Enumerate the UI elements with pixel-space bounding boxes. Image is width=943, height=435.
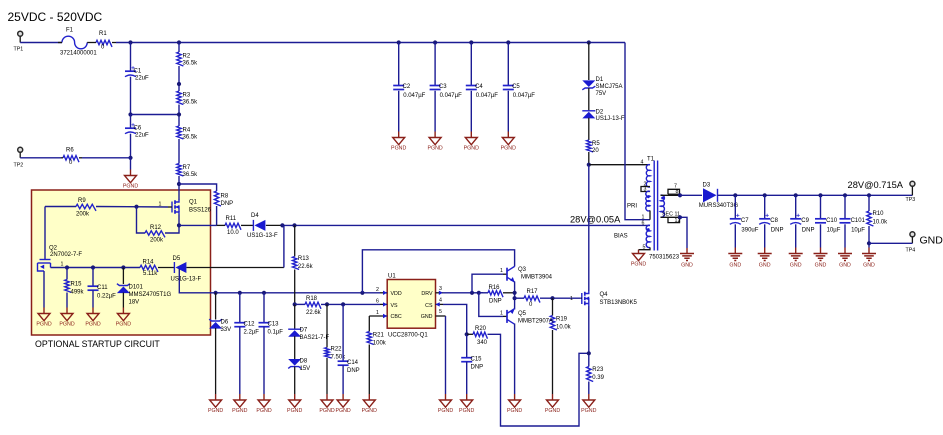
svg-text:C101: C101 (851, 218, 866, 224)
svg-text:28V@0.715A: 28V@0.715A (848, 180, 904, 190)
wire DRV line (443, 292, 483, 294)
transistor Q2 2N7002-7-F (40, 259, 51, 261)
svg-text:GND: GND (729, 263, 741, 269)
svg-text:Q2: Q2 (49, 246, 58, 252)
svg-text:DNP: DNP (489, 299, 502, 305)
svg-text:MURS340T3G: MURS340T3G (699, 203, 739, 209)
svg-text:BIAS: BIAS (614, 234, 628, 240)
wire VIN down right (625, 43, 650, 220)
wire branch down to D5 line (282, 224, 284, 226)
ground PGND R23 (583, 400, 595, 407)
ground PGND Q5 (509, 400, 521, 407)
svg-text:28V@0.05A: 28V@0.05A (570, 214, 621, 224)
transistor Q1 BSS126 (171, 202, 173, 213)
resistor R8 (214, 191, 221, 206)
svg-text:C4: C4 (475, 84, 483, 90)
ground PGND C11 (87, 314, 99, 321)
wire CS line (443, 304, 467, 334)
ground GND C8 (758, 254, 772, 261)
svg-text:R22: R22 (331, 347, 343, 353)
svg-text:7.50k: 7.50k (331, 355, 347, 361)
wire mid link (131, 114, 180, 116)
wire VDD pin stub (380, 292, 387, 294)
svg-text:Q1: Q1 (189, 200, 198, 206)
svg-text:PGND: PGND (459, 408, 474, 414)
ground PGND transformer (633, 254, 645, 261)
wire snubber chain (588, 43, 590, 81)
svg-text:TP4: TP4 (906, 248, 916, 254)
ground PGND C12 (234, 400, 246, 407)
node drain link (587, 163, 591, 167)
ground PGND C14 (337, 400, 349, 407)
svg-text:CBC: CBC (391, 314, 402, 320)
node D101 tap (121, 265, 125, 269)
wire Q4 source down (588, 306, 590, 367)
svg-text:22uF: 22uF (135, 133, 149, 139)
node snubber top (587, 40, 591, 44)
node R19 tap (550, 296, 554, 300)
svg-text:D5: D5 (173, 256, 181, 262)
svg-text:R16: R16 (489, 285, 501, 291)
wire output rail (718, 194, 913, 196)
svg-text:GND: GND (759, 263, 771, 269)
ground GND R10 (862, 254, 876, 261)
wire CS pin stub (436, 303, 444, 305)
svg-text:C15: C15 (471, 357, 483, 363)
ground PGND C13 (258, 400, 270, 407)
svg-text:TP2: TP2 (14, 163, 24, 169)
resistor R22 (326, 304, 328, 347)
wire Q5 collector to ground (514, 324, 516, 395)
svg-text:D3: D3 (703, 182, 711, 188)
diode D3 MURS340T3G (703, 188, 717, 202)
node C3 tap (433, 40, 437, 44)
capacitor C15 (466, 334, 468, 357)
svg-text:BAS21-7-F: BAS21-7-F (300, 335, 330, 341)
svg-text:D6: D6 (221, 320, 229, 326)
node Q3 base riser (470, 291, 474, 295)
test point TP4 (910, 232, 915, 237)
resistor R10 (868, 195, 870, 211)
svg-text:10.0k: 10.0k (556, 325, 572, 331)
wire VS pin stub (380, 303, 387, 305)
node C1-C6 junction (128, 112, 132, 116)
svg-text:20: 20 (592, 148, 599, 154)
ground GND C9 (789, 254, 803, 261)
svg-text:F1: F1 (66, 28, 74, 34)
svg-text:+: + (765, 213, 769, 220)
capacitor C8 (764, 195, 766, 218)
wire R6 to junction (82, 157, 131, 159)
svg-text:U1: U1 (388, 274, 396, 280)
svg-text:SEC: SEC (662, 212, 673, 218)
transistor Q5 MMBT2907A (503, 315, 507, 317)
node R10 tap (867, 193, 871, 197)
wire Q3 base (472, 274, 503, 293)
node between R2 R3 (177, 82, 181, 86)
svg-text:DNP: DNP (771, 228, 784, 234)
wire Q3 emitter to Q5 emitter (514, 282, 516, 310)
transformer bias winding (646, 225, 650, 247)
node C1 tap (128, 40, 132, 44)
svg-text:10.0k: 10.0k (873, 220, 889, 226)
op-amp U1 UCC28700-Q1 body (387, 280, 435, 329)
capacitor C10 (820, 195, 822, 218)
svg-text:R15: R15 (71, 282, 83, 288)
capacitor C9 (795, 195, 797, 218)
svg-text:C13: C13 (268, 322, 280, 328)
ground PGND R15 (61, 314, 73, 321)
node C8 tap (763, 193, 767, 197)
node mid link right (177, 112, 181, 116)
resistor R5 (587, 140, 594, 152)
wire VDD drop from D5 line (179, 269, 380, 293)
node R12 tap (134, 205, 138, 209)
wire R17 line (515, 297, 524, 299)
svg-text:2: 2 (376, 287, 379, 293)
wire secondary return to GND (680, 217, 687, 248)
svg-text:R3: R3 (183, 93, 191, 99)
svg-text:5: 5 (439, 309, 442, 315)
svg-text:6: 6 (376, 299, 379, 305)
svg-text:GND: GND (863, 263, 875, 269)
wire to R8 (179, 184, 217, 191)
capacitor C4 0.047uF (470, 43, 472, 86)
svg-text:D101: D101 (129, 285, 144, 291)
diode D8 zener 15V (288, 367, 301, 369)
svg-text:GND: GND (790, 263, 802, 269)
capacitor C5 0.047uF (507, 43, 509, 86)
svg-text:C8: C8 (770, 218, 778, 224)
ground PGND Q2 (38, 314, 50, 321)
ground GND C10 (814, 254, 828, 261)
svg-text:C9: C9 (801, 218, 809, 224)
svg-text:36.5k: 36.5k (183, 100, 199, 106)
ground PGND R19 (547, 400, 559, 407)
svg-text:R1: R1 (99, 31, 107, 37)
transformer secondary winding (661, 195, 665, 217)
svg-text:GND: GND (815, 263, 827, 269)
ground PGND R21 (363, 400, 375, 407)
svg-text:PGND: PGND (335, 408, 350, 414)
svg-text:1: 1 (500, 268, 503, 274)
svg-text:36.5k: 36.5k (183, 172, 199, 178)
svg-text:Q3: Q3 (518, 267, 527, 273)
svg-text:22uF: 22uF (135, 76, 149, 82)
svg-text:PGND: PGND (581, 408, 596, 414)
diode D7 BAS21-7-F (294, 304, 296, 329)
resistor R7 (177, 164, 184, 176)
svg-text:GND: GND (681, 263, 693, 269)
svg-text:3: 3 (439, 286, 442, 292)
svg-text:PGND: PGND (116, 322, 131, 328)
svg-text:D2: D2 (596, 110, 604, 116)
node C2 tap (397, 40, 401, 44)
ground PGND C2 (393, 138, 405, 145)
transformer pins 7 8 bracket (661, 194, 681, 196)
svg-text:340: 340 (477, 340, 488, 346)
svg-text:GND: GND (920, 235, 943, 247)
node secondary return (678, 215, 682, 219)
svg-text:DRV: DRV (421, 291, 433, 297)
svg-text:US1J-13-F: US1J-13-F (596, 116, 625, 122)
node C5 tap (506, 40, 510, 44)
wire startup node line (67, 267, 140, 269)
svg-text:+: + (796, 213, 800, 220)
svg-text:R14: R14 (143, 260, 155, 266)
svg-text:R13: R13 (298, 256, 310, 262)
ground GND secondary (680, 254, 694, 261)
svg-text:6: 6 (642, 220, 645, 226)
svg-text:R11: R11 (226, 216, 237, 222)
node Q1 drain / R8 tap (177, 182, 181, 186)
svg-text:MMBT2907A: MMBT2907A (518, 319, 553, 325)
svg-text:0.047µF: 0.047µF (513, 93, 535, 99)
wire top rail to right (116, 42, 625, 44)
svg-text:C10: C10 (826, 218, 838, 224)
svg-text:MMSZ4705T1G: MMSZ4705T1G (129, 292, 172, 298)
svg-text:R21: R21 (373, 333, 385, 339)
svg-text:SMCJ75A: SMCJ75A (596, 84, 623, 90)
svg-text:CS: CS (425, 303, 433, 309)
resistor R14 (140, 265, 158, 272)
svg-text:0.22µF: 0.22µF (97, 294, 116, 300)
svg-text:PGND: PGND (545, 408, 560, 414)
resistor R18 (305, 302, 321, 309)
svg-text:DNP: DNP (471, 365, 484, 371)
svg-text:PGND: PGND (123, 184, 138, 190)
transformer pins 11 12 bracket (661, 216, 681, 218)
wire DRV pin stub (436, 292, 444, 294)
svg-text:1: 1 (570, 296, 573, 302)
wire CBC pin stub (369, 315, 387, 317)
diode D1 SMCJ75A TVS (582, 86, 595, 90)
svg-text:Q4: Q4 (600, 292, 609, 298)
transformer pins 2 3 bracket (641, 187, 650, 192)
resistor R16 (479, 292, 488, 294)
node C10 tap (818, 193, 822, 197)
svg-text:10.0: 10.0 (227, 230, 239, 236)
node C14 tap (341, 302, 345, 306)
svg-text:+: + (736, 213, 740, 220)
resistor R4 (177, 126, 184, 139)
capacitor C14 (342, 304, 344, 361)
svg-text:D7: D7 (300, 328, 308, 334)
svg-text:VDD: VDD (391, 291, 402, 297)
svg-text:DNP: DNP (347, 368, 360, 374)
resistor R1 (96, 40, 112, 47)
svg-text:PGND: PGND (232, 408, 247, 414)
resistor R9 (76, 204, 96, 211)
svg-text:C2: C2 (403, 84, 411, 90)
wire Q1 gate from R9 (96, 206, 168, 209)
ground PGND C4 (465, 138, 477, 145)
svg-text:R17: R17 (527, 289, 539, 295)
node C7 tap (733, 193, 737, 197)
svg-text:R19: R19 (556, 317, 568, 323)
svg-text:MMBT3904: MMBT3904 (521, 275, 553, 281)
svg-text:5: 5 (643, 244, 646, 250)
svg-text:0.047µF: 0.047µF (440, 93, 462, 99)
svg-text:TP3: TP3 (906, 197, 916, 203)
node sense join (587, 351, 591, 355)
svg-text:37214000001: 37214000001 (60, 51, 97, 57)
node secondary out (678, 193, 682, 197)
svg-text:STB13NB0K5: STB13NB0K5 (600, 300, 638, 306)
svg-text:0.1µF: 0.1µF (268, 330, 284, 336)
svg-text:D1: D1 (596, 77, 604, 83)
wire TP1 stub (19, 37, 21, 43)
node C4 tap (469, 40, 473, 44)
svg-text:750315623: 750315623 (649, 254, 680, 260)
node R15 tap (65, 265, 69, 269)
svg-text:18V: 18V (129, 300, 140, 306)
svg-text:C5: C5 (512, 84, 520, 90)
svg-text:C12: C12 (244, 322, 256, 328)
resistor R21 (368, 316, 370, 332)
resistor R6 (63, 156, 79, 163)
fuse F1 (62, 36, 87, 49)
svg-text:VS: VS (391, 303, 399, 309)
node R6 junction (128, 156, 132, 160)
wire top rail (20, 42, 62, 44)
svg-text:TP1: TP1 (14, 47, 24, 53)
optional startup circuit box (32, 190, 211, 335)
wire R12 to Q1 source (165, 215, 179, 234)
node D6 tap (214, 291, 218, 295)
ground PGND C15 (461, 400, 473, 407)
svg-text:10µF: 10µF (851, 228, 865, 234)
wire C1 column (130, 43, 132, 72)
wire TP2 to R6 (20, 157, 61, 159)
wire pin1 (649, 211, 651, 220)
diode D101 MMSZ4705T1G zener (122, 268, 124, 285)
wire VS line (295, 303, 305, 305)
diode D5 US1G-13-F (158, 267, 174, 269)
svg-text:PGND: PGND (631, 262, 646, 268)
node R2 tap (177, 40, 181, 44)
svg-text:DNP: DNP (802, 228, 815, 234)
svg-text:C6: C6 (134, 126, 142, 132)
svg-text:200k: 200k (76, 212, 90, 218)
capacitor C3 0.047uF (434, 43, 436, 86)
svg-text:75V: 75V (596, 91, 607, 97)
svg-text:PGND: PGND (208, 408, 223, 414)
wire Q5 base (479, 293, 503, 317)
svg-text:DNP: DNP (221, 201, 234, 207)
svg-text:499k: 499k (71, 290, 85, 296)
resistor R17 (524, 296, 540, 303)
svg-text:GND: GND (839, 263, 851, 269)
svg-text:US1G-13-F: US1G-13-F (247, 233, 278, 239)
wire drain vertical (588, 165, 590, 291)
svg-text:PGND: PGND (85, 322, 100, 328)
svg-text:UCC28700-Q1: UCC28700-Q1 (388, 333, 428, 339)
diode D4 US1G-13-F (241, 224, 253, 226)
svg-text:PGND: PGND (362, 408, 377, 414)
wire R9 left leg down to Q2 (45, 206, 76, 208)
ground PGND D101 (117, 314, 129, 321)
svg-text:D8: D8 (300, 359, 308, 365)
svg-text:US1G-13-F: US1G-13-F (171, 277, 202, 283)
svg-text:GND: GND (421, 314, 433, 320)
svg-text:R23: R23 (592, 367, 604, 373)
svg-text:PGND: PGND (36, 322, 51, 328)
svg-text:PGND: PGND (501, 146, 516, 152)
node C9 tap (794, 193, 798, 197)
svg-text:2.2µF: 2.2µF (244, 330, 260, 336)
resistor R12 (145, 231, 165, 238)
svg-text:1: 1 (500, 310, 503, 316)
node TP4 link (867, 241, 871, 245)
svg-text:R6: R6 (66, 147, 74, 153)
diode D2 US1J-13-F (582, 110, 595, 112)
svg-text:R5: R5 (592, 141, 600, 147)
node Q1 source on VDD line (177, 223, 181, 227)
svg-text:C7: C7 (741, 218, 749, 224)
svg-text:OPTIONAL STARTUP CIRCUIT: OPTIONAL STARTUP CIRCUIT (35, 339, 160, 349)
node C101 tap (843, 193, 847, 197)
test point TP3 (910, 181, 915, 186)
svg-text:C14: C14 (347, 360, 359, 366)
svg-text:0.047µF: 0.047µF (476, 93, 498, 99)
svg-text:PGND: PGND (438, 408, 453, 414)
node D5 branch (280, 223, 284, 227)
resistor R13 (294, 225, 296, 256)
node C13 tap (262, 291, 266, 295)
svg-text:200k: 200k (150, 238, 164, 244)
svg-text:22.6k: 22.6k (306, 310, 322, 316)
wire to transformer pin4 (589, 164, 650, 166)
node R13 branch (292, 223, 296, 227)
svg-text:5.11k: 5.11k (143, 271, 158, 277)
test point TP2 (18, 147, 23, 152)
ground PGND R22 (321, 400, 333, 407)
svg-text:C11: C11 (97, 285, 108, 291)
wire VDD up to Q3 collector (362, 250, 514, 293)
resistor R19 (552, 298, 554, 315)
svg-text:R10: R10 (873, 211, 885, 217)
wire TP4 to R10 (869, 242, 912, 244)
wire sec to D3 (680, 194, 702, 196)
ground PGND C3 (429, 138, 441, 145)
wire GND pin to ground (436, 315, 446, 317)
resistor R20 (467, 333, 473, 335)
svg-text:PGND: PGND (319, 408, 334, 414)
node Q5 base dropper (477, 291, 481, 295)
svg-text:R18: R18 (306, 296, 318, 302)
svg-text:8: 8 (676, 189, 679, 195)
wire bias line continues (282, 224, 650, 226)
ground PGND D6 (210, 400, 222, 407)
svg-text:R9: R9 (78, 198, 86, 204)
capacitor C2 0.047uF (398, 43, 400, 86)
svg-text:PGND: PGND (59, 322, 74, 328)
svg-text:4: 4 (641, 159, 644, 165)
wire R2 column top (178, 43, 180, 53)
svg-text:1: 1 (376, 310, 379, 316)
wire R12 branch (137, 207, 146, 233)
resistor R11 (225, 223, 241, 230)
wire Q2 drain to node (51, 267, 68, 269)
resistor R23 (587, 367, 594, 382)
svg-text:PGND: PGND (391, 146, 406, 152)
test point TP1 (18, 31, 23, 36)
svg-text:R8: R8 (221, 194, 229, 200)
svg-text:C1: C1 (134, 69, 142, 75)
capacitor C101 (844, 195, 846, 218)
transistor Q4 STB13NB0K5 (581, 293, 583, 304)
